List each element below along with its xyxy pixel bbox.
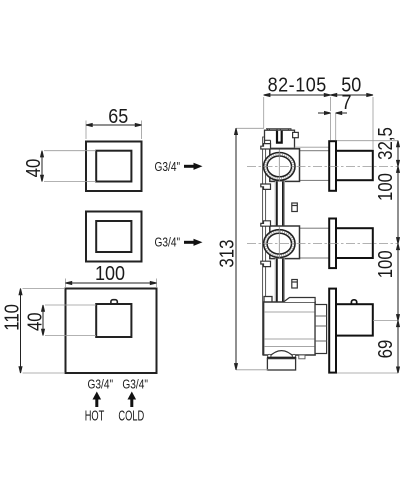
dim 110 ext lines: [23, 289, 65, 374]
bleed fitting 1: [292, 203, 298, 212]
svg-text:7: 7: [341, 92, 351, 114]
elbow top-left mixer: [264, 297, 272, 305]
bracket line cap to plate: [295, 146, 330, 148]
dim 100 ext lines: [66, 279, 157, 288]
ext plate3 bottom: [337, 372, 398, 374]
centerline v1 vertical: [278, 150, 280, 184]
square plate top (front view) outer: [86, 142, 142, 192]
bleed fitting 2: [292, 280, 298, 289]
mounting rail: [263, 137, 266, 355]
centerline valve1: [247, 165, 398, 167]
cartridge ring v1: [264, 153, 295, 181]
svg-text:G3/4": G3/4": [155, 160, 181, 174]
svg-text:313: 313: [215, 240, 238, 268]
svg-text:65: 65: [108, 106, 128, 128]
centerline mixer extension: [373, 320, 398, 322]
stem to wall v2: [300, 228, 330, 258]
flange bottom-left v2: [261, 261, 271, 266]
knob 1: [336, 151, 373, 180]
dim 65 extension lines: [86, 121, 142, 140]
mixer bottom-right tab: [299, 355, 305, 359]
svg-text:100: 100: [95, 263, 125, 285]
cartridge ring v2: [264, 230, 295, 258]
arrow up hot: [93, 392, 102, 408]
body block v2: [270, 226, 300, 259]
knob 3 bump: [351, 300, 356, 304]
knob 3: [336, 304, 373, 335]
plate 3: [329, 289, 336, 373]
arrow up cold: [128, 392, 137, 408]
top cap pipe socket: [277, 131, 282, 143]
svg-text:40: 40: [23, 312, 46, 331]
top cap outline: [265, 130, 295, 148]
dim 40 line: [42, 305, 45, 336]
ext top 313: [236, 127, 264, 129]
dim 110 line: [19, 289, 22, 374]
square plate middle outer: [86, 212, 142, 262]
svg-text:100: 100: [373, 173, 396, 201]
svg-text:COLD: COLD: [118, 407, 144, 424]
knob 2: [336, 228, 373, 258]
svg-text:100: 100: [373, 250, 396, 278]
flange top-left v1: [261, 144, 271, 149]
svg-text:110: 110: [0, 304, 23, 331]
arrow row1: [184, 163, 203, 170]
top cap right tab: [293, 132, 299, 137]
dim 100 line: [66, 282, 157, 285]
dim 40 (top square) extension lines: [44, 151, 96, 182]
flange top-left v2: [261, 221, 271, 226]
mixer foot: [267, 359, 295, 370]
centerline v2 vertical: [278, 227, 280, 261]
flange bottom-left v1: [261, 184, 271, 189]
plate 1: [329, 141, 336, 191]
top cap left notch: [265, 140, 271, 148]
pipe between v1 and v2: [275, 181, 284, 226]
dim 40 line: [41, 151, 44, 182]
svg-text:HOT: HOT: [85, 407, 105, 424]
svg-text:40: 40: [22, 159, 45, 178]
pipe between v2 and mixer: [275, 259, 284, 302]
svg-text:G3/4": G3/4": [88, 377, 114, 391]
mixer cartridge stack: [315, 305, 327, 354]
mixer body: [264, 302, 316, 355]
mixer internal lines: [264, 312, 315, 347]
top cap top plate line and bumps: [266, 129, 292, 131]
svg-text:82-105: 82-105: [268, 75, 327, 97]
big square plate (front view): [66, 289, 157, 374]
arrow row2: [184, 239, 203, 246]
dim 65 line: [86, 124, 142, 127]
dim 40 (big plate) ext lines: [45, 305, 96, 336]
mixer top step: [284, 298, 316, 303]
ext plate1 top: [337, 140, 398, 142]
svg-text:69: 69: [373, 340, 396, 359]
body block v1: [270, 149, 300, 182]
knob on big plate: [111, 300, 117, 305]
centerline valve2: [247, 243, 398, 245]
svg-text:32,5: 32,5: [373, 127, 396, 160]
stem to wall v1: [300, 151, 330, 181]
svg-text:G3/4": G3/4": [155, 236, 181, 250]
plate 2: [329, 219, 336, 269]
mixer bottom dome: [269, 351, 295, 358]
svg-text:G3/4": G3/4": [122, 377, 148, 391]
inner square of big plate: [96, 304, 131, 337]
ext bottom 313: [236, 369, 268, 371]
